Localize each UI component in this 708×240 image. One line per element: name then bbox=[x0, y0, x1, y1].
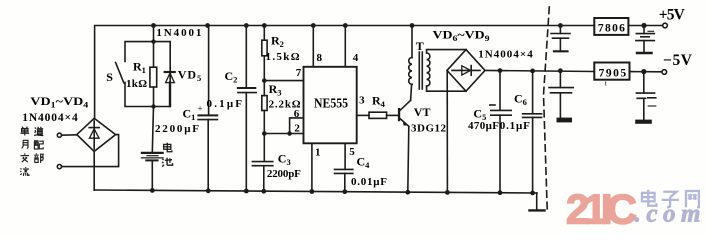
svg-text:0.01μF: 0.01μF bbox=[351, 176, 387, 188]
regulator 7905 box bbox=[594, 63, 629, 80]
resistor R1 bbox=[150, 67, 157, 87]
wire R2 to R3 bbox=[263, 56, 265, 96]
backup unit box (S / R1 / VD5) bbox=[125, 42, 170, 107]
node dot box bottom bbox=[151, 104, 155, 108]
svg-text:1: 1 bbox=[315, 147, 321, 159]
node junction dots on bottom rail bbox=[150, 188, 535, 195]
svg-text:4: 4 bbox=[353, 52, 359, 64]
bridge rectifier VD6-VD9 bbox=[447, 50, 485, 92]
resistor R3 bbox=[262, 96, 267, 111]
svg-text:VT: VT bbox=[414, 105, 431, 119]
label AC input chinese bbox=[20, 127, 43, 176]
wire AC upper to bridge left vertex bbox=[62, 134, 77, 136]
capacitor C6 bbox=[523, 71, 542, 193]
transistor VT 3DG12 bbox=[398, 84, 412, 126]
capacitor 7806 output with ground bbox=[636, 26, 654, 54]
wire pin 5 to C4 bbox=[344, 143, 346, 169]
svg-text:21IC: 21IC bbox=[566, 186, 637, 233]
regulator 7806 box bbox=[594, 18, 628, 35]
ground symbol at end of bottom rail bbox=[530, 193, 545, 210]
transformer T bbox=[409, 26, 430, 90]
node dot 7806 output bbox=[641, 23, 646, 28]
svg-text:+: + bbox=[198, 104, 203, 114]
wire 7905 output to -5V terminal bbox=[630, 71, 662, 73]
wire pin 4 to rail bbox=[344, 26, 346, 67]
svg-text:5: 5 bbox=[349, 146, 355, 158]
svg-text:2200μF: 2200μF bbox=[155, 123, 199, 135]
bridge rectifier VD1-VD4 bbox=[77, 118, 116, 151]
wire bridge2 left vertex to ground rail bbox=[446, 70, 448, 192]
wire VT emitter to ground rail bbox=[408, 126, 409, 192]
op-amp timer U1 NE555 box bbox=[304, 67, 357, 144]
capacitor C2 plates bbox=[238, 88, 256, 93]
wire bridge bottom vertex to ground rail bbox=[93, 151, 95, 190]
svg-text:0.1μF: 0.1μF bbox=[207, 98, 243, 110]
svg-text:NE555: NE555 bbox=[314, 97, 348, 112]
svg-text:2: 2 bbox=[294, 122, 300, 134]
watermark dianziwang bbox=[642, 190, 699, 208]
wire negative output line bbox=[485, 70, 594, 71]
svg-text:8: 8 bbox=[317, 52, 323, 64]
capacitor C2 wire from rail bbox=[245, 26, 247, 88]
switch S arm bbox=[116, 63, 124, 83]
wire R1 to battery bbox=[152, 87, 153, 153]
wire rail to R1 bbox=[153, 26, 155, 68]
svg-text:1N4004×4: 1N4004×4 bbox=[478, 49, 533, 61]
svg-text:T: T bbox=[416, 39, 424, 53]
svg-text:−5V: −5V bbox=[663, 52, 693, 69]
capacitor C5 electrolytic bbox=[490, 71, 511, 193]
svg-text:3: 3 bbox=[359, 95, 365, 107]
terminal +5V bbox=[663, 23, 668, 28]
wire pin 8 to rail bbox=[312, 26, 314, 67]
svg-text:6: 6 bbox=[294, 108, 300, 120]
svg-text:1N4004×4: 1N4004×4 bbox=[22, 112, 78, 124]
diode VD5 on box right edge bbox=[165, 72, 175, 106]
wire battery to ground rail bbox=[151, 160, 153, 190]
wire pin 2 stub to NE555 bbox=[264, 133, 303, 135]
resistor R2 bbox=[262, 26, 267, 56]
label battery chinese bbox=[162, 143, 172, 167]
node dots on negative line bbox=[498, 68, 563, 73]
wire top positive rail bbox=[95, 26, 595, 120]
wire C4 to ground rail bbox=[344, 173, 346, 191]
wire C1 to ground rail bbox=[207, 120, 209, 191]
dashed separator line bbox=[544, 7, 550, 212]
node junction dots on top rail bbox=[151, 23, 563, 28]
svg-text:S: S bbox=[106, 70, 113, 84]
wire C3 to ground rail bbox=[263, 166, 265, 192]
capacitor C1 plates bbox=[198, 115, 217, 119]
svg-text:7806: 7806 bbox=[598, 22, 625, 34]
capacitor 7905 output with ground bbox=[635, 72, 656, 124]
resistor R4 bbox=[369, 112, 387, 118]
wire R3 to C3 bbox=[263, 111, 265, 162]
wire pin 1 to ground rail bbox=[311, 143, 313, 191]
wire pin 7 stub to NE555 bbox=[264, 80, 303, 82]
svg-text:470μF: 470μF bbox=[468, 120, 499, 132]
wire 7806 output to +5V terminal bbox=[628, 25, 662, 27]
wire R4 to VT base bbox=[387, 114, 398, 116]
wire C2 to ground rail bbox=[245, 93, 247, 191]
svg-text:7905: 7905 bbox=[599, 68, 627, 80]
svg-text:1.5kΩ: 1.5kΩ bbox=[266, 51, 300, 63]
svg-text:2200pF: 2200pF bbox=[267, 168, 301, 180]
battery cell symbol bbox=[141, 153, 163, 161]
capacitor 7905 input with ground bbox=[549, 71, 573, 123]
AC input terminal upper bbox=[57, 133, 61, 137]
svg-text:3DG12: 3DG12 bbox=[411, 123, 447, 135]
wire bottom ground rail bbox=[94, 190, 537, 193]
wire pin 3 stub bbox=[357, 114, 369, 116]
node pin7 junction bbox=[262, 78, 267, 83]
wire pin 6 stub and tie bbox=[290, 118, 304, 134]
svg-text:7: 7 bbox=[296, 67, 302, 79]
AC input terminal lower bbox=[57, 165, 61, 169]
terminal -5V bbox=[662, 70, 667, 75]
capacitor 7806 input with ground bbox=[551, 26, 570, 52]
capacitor C4 plates bbox=[335, 169, 353, 173]
wire secondary bottom to bridge2 bbox=[427, 86, 466, 91]
svg-text:0.1μF: 0.1μF bbox=[500, 120, 530, 132]
svg-text:1kΩ: 1kΩ bbox=[126, 78, 147, 90]
node dot box top bbox=[151, 39, 155, 43]
wire secondary top to bridge2 bbox=[427, 50, 466, 53]
capacitor C3 plates bbox=[252, 162, 272, 166]
wire AC lower to bridge right vertex bbox=[62, 135, 119, 167]
svg-text:VD6~VD9: VD6~VD9 bbox=[433, 28, 490, 44]
svg-text:VD1~VD4: VD1~VD4 bbox=[30, 94, 89, 110]
node dot 7905 output bbox=[641, 69, 646, 74]
node dot pin6 tie bbox=[287, 131, 292, 136]
capacitor C1 wire from rail bbox=[208, 26, 210, 116]
svg-text:+5V: +5V bbox=[659, 7, 686, 24]
node pins 2-6 junction bbox=[262, 131, 267, 136]
